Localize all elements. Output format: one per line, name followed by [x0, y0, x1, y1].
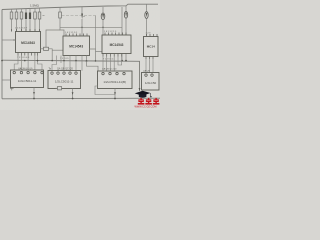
- node left rail: [1, 60, 3, 62]
- DS1 pin circles: [13, 71, 43, 73]
- mid bus: [2, 60, 140, 91]
- U1 pin wires to display: [14, 56, 42, 71]
- svg-text:QA QB QC QD: QA QB QC QD: [102, 68, 117, 71]
- node bus x122: [121, 60, 123, 62]
- wire DS1 to rail: [33, 88, 35, 100]
- wire DS4 drop: [139, 88, 141, 91]
- DS2 pin circles: [51, 72, 77, 74]
- wire R1: [11, 9, 13, 31]
- capacitor C2: [145, 4, 148, 36]
- svg-text:1/2LC5011-11: 1/2LC5011-11: [18, 79, 37, 83]
- top power rail: [2, 4, 158, 9]
- wire U2-U3 link: [90, 49, 96, 61]
- capacitor bank A: [25, 13, 27, 20]
- bottom rail: [2, 97, 160, 100]
- resistor R4: [34, 12, 37, 19]
- transistor Q2: [101, 7, 105, 35]
- svg-text:QA QB QC QD: QA QB QC QD: [57, 67, 73, 70]
- wire DS3 to rail: [95, 86, 116, 99]
- op-amp U3 MC14543: [102, 35, 131, 54]
- svg-text:7 1 2 6 5 4: 7 1 2 6 5 4: [103, 59, 114, 61]
- paper background: [0, 0, 160, 110]
- wire x122: [121, 7, 123, 61]
- op-amp U2 MC14543: [63, 36, 90, 56]
- node R7: [51, 60, 53, 62]
- DS3 pin circles: [102, 72, 125, 74]
- node bus2: [37, 60, 39, 62]
- capacitor C4 small: [10, 87, 14, 90]
- watermark text big: [138, 98, 160, 105]
- U2 bottom pins wires: [52, 56, 82, 71]
- left rail: [1, 10, 3, 99]
- wire mid horizontal: [62, 15, 96, 17]
- wire R2: [16, 9, 18, 32]
- wire R5: [39, 8, 41, 31]
- wire x95 vertical: [95, 16, 97, 50]
- svg-text:1.5MΩ: 1.5MΩ: [30, 3, 40, 7]
- wire link x46: [46, 30, 60, 47]
- wire R3: [21, 9, 23, 32]
- display DS3 LC5011-11: [98, 71, 133, 89]
- wire U1 left input: [2, 39, 16, 41]
- svg-text:1/2LC50: 1/2LC50: [145, 81, 157, 85]
- svg-text:QA QB QC QD: QA QB QC QD: [18, 67, 33, 70]
- tick x43: [43, 15, 45, 17]
- U3 pin wires to display: [103, 57, 122, 71]
- wire C bank B: [29, 9, 31, 32]
- svg-text:WWW.CC-DZ.COM: WWW.CC-DZ.COM: [135, 106, 157, 109]
- wire step to DS3: [87, 61, 99, 71]
- svg-text:7 1 2 6 5: 7 1 2 6 5: [60, 58, 69, 60]
- node q2: [102, 27, 104, 29]
- DS4 pin circles: [145, 74, 153, 76]
- svg-text:1 2 3: 1 2 3: [146, 33, 152, 35]
- svg-text:1/2LC5011-11: 1/2LC5011-11: [55, 80, 74, 84]
- U3 top pin ticks: [105, 33, 126, 36]
- op-amp U4 MC14543: [144, 37, 159, 57]
- wire DS2 to rail: [72, 89, 74, 100]
- resistor R3: [20, 12, 23, 19]
- U4 top pin ticks: [147, 34, 158, 37]
- wire R4: [34, 8, 36, 31]
- U2 top pin ticks: [66, 34, 87, 37]
- node bus3: [63, 60, 65, 62]
- resistor R6: [59, 7, 64, 36]
- resistor R2: [15, 12, 18, 19]
- wire DS1 left: [2, 79, 11, 81]
- svg-text:1/2LC5011-11(B): 1/2LC5011-11(B): [103, 80, 126, 84]
- display DS1 LC5011-11: [11, 70, 44, 88]
- resistor R1: [10, 12, 13, 19]
- svg-text:1 2 3 4 5 6 7: 1 2 3 4 5 6 7: [15, 28, 28, 30]
- wire C bank A: [25, 9, 27, 32]
- svg-text:MC14543: MC14543: [110, 43, 124, 47]
- wire U2 pin to bus: [86, 56, 88, 62]
- display DS2 LC5011-11: [48, 71, 81, 89]
- svg-text:MC14543: MC14543: [69, 45, 83, 49]
- transistor Q1: [81, 7, 85, 36]
- capacitor C3 small: [56, 87, 62, 90]
- svg-text:MC14543: MC14543: [21, 41, 35, 45]
- watermark graduation cap: [135, 91, 152, 98]
- wire clock horizontal: [60, 26, 122, 28]
- wire U4 pins to display: [146, 59, 153, 73]
- resistor R7 between U1 U2: [41, 47, 64, 60]
- svg-text:MC14: MC14: [147, 45, 155, 49]
- resistor bank wires: [12, 8, 40, 31]
- svg-text:1 6 1 1 2 1 5: 1 6 1 1 2 1 5: [104, 31, 117, 33]
- node bus x126: [125, 60, 127, 62]
- U4 bottom pins: [146, 57, 153, 60]
- U1 left pin stub: [13, 39, 16, 41]
- capacitor C1: [124, 6, 127, 61]
- node q1: [81, 27, 83, 29]
- capacitor bank B: [29, 13, 31, 20]
- node bus1: [24, 60, 26, 62]
- U1 bottom pins: [18, 53, 38, 56]
- svg-text:QA QB: QA QB: [143, 70, 150, 73]
- U1 top pin ticks: [12, 29, 40, 32]
- resistor R5: [38, 12, 41, 19]
- op-amp U1 MC14543: [16, 32, 41, 53]
- node bus x86.5: [86, 60, 88, 62]
- display DS4 LC5011-11: [142, 73, 160, 91]
- svg-text:1 4 1 1 1 5 1: 1 4 1 1 1 5 1: [65, 32, 78, 34]
- U3 bottom pins: [103, 54, 122, 57]
